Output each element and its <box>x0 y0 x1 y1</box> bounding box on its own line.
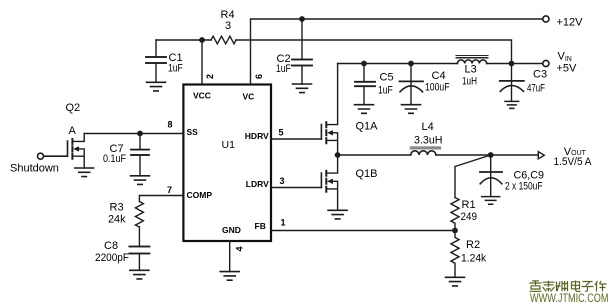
svg-text:VC: VC <box>243 91 255 101</box>
svg-text:1uF: 1uF <box>378 85 393 97</box>
node C7 junction <box>137 131 143 137</box>
wire GND pin 4 <box>229 241 231 272</box>
svg-text:C3: C3 <box>533 69 547 81</box>
wire R4/VCC rail to VIN <box>156 40 512 64</box>
resistor R3 <box>135 202 143 228</box>
watermark url <box>530 293 609 305</box>
wire pin 2 VCC <box>201 40 203 85</box>
ground (C4) <box>402 105 421 114</box>
svg-text:2 x 150uF: 2 x 150uF <box>505 181 543 193</box>
terminal +12V <box>543 16 549 22</box>
wire LDRV pin 3 <box>271 187 321 189</box>
svg-text:24k: 24k <box>108 214 126 226</box>
watermark chinese characters <box>530 281 607 292</box>
svg-text:7: 7 <box>167 185 172 195</box>
capacitor C3 (polarized) <box>500 80 524 82</box>
svg-text:C8: C8 <box>104 240 118 252</box>
svg-text:A: A <box>69 125 77 137</box>
node C3 junction <box>509 61 515 67</box>
svg-text:5: 5 <box>279 128 284 138</box>
svg-text:R2: R2 <box>466 239 480 251</box>
wire VIN rail <box>338 63 543 65</box>
node C2 top junction <box>299 16 305 22</box>
svg-text:Shutdown: Shutdown <box>10 163 59 175</box>
svg-text:HDRV: HDRV <box>245 131 269 141</box>
capacitor C1 <box>146 40 166 82</box>
ground (C5) <box>355 105 374 114</box>
capacitor C2 <box>292 19 312 84</box>
svg-text:1uF: 1uF <box>168 63 183 75</box>
capacitor C7 <box>131 134 149 176</box>
capacitor C5 <box>355 64 375 105</box>
ground (R2) <box>446 277 465 286</box>
svg-text:C5: C5 <box>380 72 394 84</box>
svg-text:LDRV: LDRV <box>246 179 269 189</box>
svg-text:GND: GND <box>222 225 241 235</box>
svg-text:249: 249 <box>461 211 478 223</box>
ground (C7) <box>131 176 150 185</box>
svg-text:2: 2 <box>205 74 215 79</box>
ground (IC GND) <box>220 272 239 281</box>
svg-text:U1: U1 <box>222 139 236 151</box>
transistor Q2 <box>44 141 68 156</box>
node R4 left / VCC junction <box>199 37 205 43</box>
svg-text:L4: L4 <box>422 121 434 133</box>
svg-text:R1: R1 <box>462 199 476 211</box>
capacitor C4 (polarized) <box>410 64 412 105</box>
wire FB pin 1 <box>271 230 455 232</box>
node FB divider junction <box>452 228 458 234</box>
node C5 junction <box>361 61 367 67</box>
svg-text:47uF: 47uF <box>527 82 545 94</box>
svg-text:L3: L3 <box>465 64 477 76</box>
ground (C3) <box>505 101 519 108</box>
wire L4 to output <box>436 154 538 156</box>
svg-text:0.1uF: 0.1uF <box>103 153 126 165</box>
IC U1 <box>183 85 271 242</box>
svg-text:100uF: 100uF <box>425 82 450 94</box>
svg-text:SS: SS <box>187 127 199 137</box>
transistor Q1B <box>320 173 322 188</box>
ground (C6,C9) <box>482 197 500 205</box>
terminal Shutdown <box>38 153 44 159</box>
svg-text:8: 8 <box>168 120 173 130</box>
node output junction <box>488 152 494 158</box>
wire switch node to L4 <box>338 154 411 156</box>
transistor Q1A <box>320 125 322 140</box>
capacitor C8 <box>129 227 149 270</box>
svg-text:1uH: 1uH <box>462 76 477 88</box>
svg-text:1uF: 1uF <box>276 63 291 75</box>
wire SS pin 8 <box>84 133 183 135</box>
svg-text:4: 4 <box>235 246 245 251</box>
svg-text:+5V: +5V <box>557 63 578 75</box>
wire output to R1 (diagonal) <box>455 155 491 198</box>
inductor L3 <box>457 60 486 64</box>
node C4 junction <box>408 61 414 67</box>
wire +12V top rail from VC pin <box>251 19 543 85</box>
svg-text:COMP: COMP <box>187 190 213 200</box>
node switch node <box>335 152 341 158</box>
terminal VIN +5V <box>543 60 549 66</box>
svg-text:1.24k: 1.24k <box>461 253 487 265</box>
svg-text:FB: FB <box>255 221 266 231</box>
svg-text:3.3uH: 3.3uH <box>414 135 443 147</box>
ground (C2) <box>293 84 312 93</box>
capacitor C6,C9 (polarized) <box>490 155 492 196</box>
ground (C8) <box>130 270 149 279</box>
svg-text:+12V: +12V <box>557 17 584 29</box>
svg-text:1: 1 <box>281 218 286 228</box>
wire COMP pin 7 <box>139 196 183 202</box>
resistor R1 <box>451 198 459 231</box>
svg-text:Q1B: Q1B <box>356 168 378 180</box>
ground (Q2) <box>75 168 94 177</box>
output arrow <box>538 152 544 159</box>
ground (C1) <box>147 82 166 91</box>
svg-text:WWW.JTMIC.COM: WWW.JTMIC.COM <box>530 293 609 305</box>
resistor R4 <box>211 36 236 44</box>
inductor L4 <box>411 151 436 155</box>
svg-text:6: 6 <box>254 74 264 79</box>
svg-text:3: 3 <box>225 20 231 32</box>
svg-text:Q2: Q2 <box>66 102 81 114</box>
ground (Q1B) <box>328 210 347 219</box>
svg-text:C4: C4 <box>432 70 446 82</box>
svg-text:1.5V/5 A: 1.5V/5 A <box>554 156 593 168</box>
svg-text:R3: R3 <box>110 202 124 214</box>
wire HDRV pin 5 <box>271 138 321 140</box>
resistor R2 <box>451 231 459 278</box>
svg-text:3: 3 <box>280 176 285 186</box>
svg-text:VCC: VCC <box>193 90 211 100</box>
svg-text:2200pF: 2200pF <box>95 252 129 264</box>
svg-text:Q1A: Q1A <box>356 121 379 133</box>
